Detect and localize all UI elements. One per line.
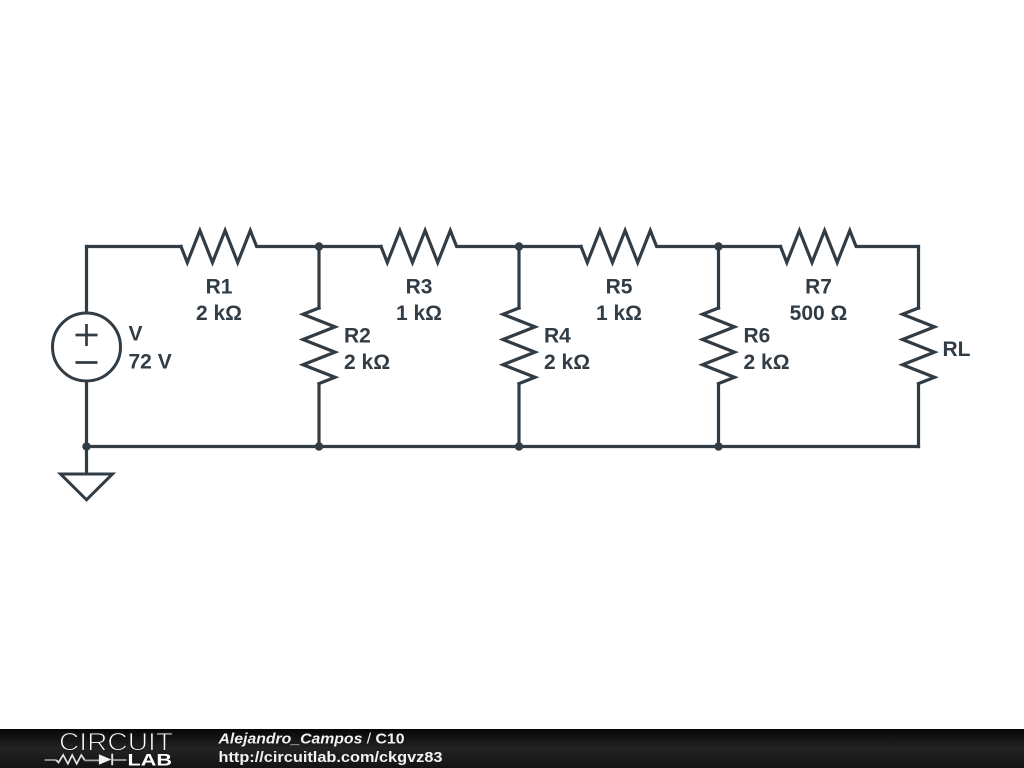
svg-text:R3: R3 [406, 276, 433, 299]
svg-text:2 kΩ: 2 kΩ [544, 351, 590, 374]
svg-text:72 V: 72 V [129, 351, 172, 374]
svg-text:Alejandro_Campos / C10: Alejandro_Campos / C10 [217, 731, 404, 748]
svg-text:R1: R1 [206, 276, 233, 299]
svg-text:2 kΩ: 2 kΩ [196, 302, 242, 325]
svg-text:V: V [129, 323, 143, 346]
svg-text:R4: R4 [544, 325, 571, 348]
svg-text:500 Ω: 500 Ω [790, 302, 848, 325]
svg-text:1 kΩ: 1 kΩ [396, 302, 442, 325]
svg-text:RL: RL [943, 338, 971, 361]
svg-text:R6: R6 [744, 325, 771, 348]
svg-text:1 kΩ: 1 kΩ [596, 302, 642, 325]
svg-text:R7: R7 [805, 276, 832, 299]
svg-text:LAB: LAB [128, 752, 173, 768]
svg-text:http://circuitlab.com/ckgvz83: http://circuitlab.com/ckgvz83 [219, 749, 443, 766]
svg-text:2 kΩ: 2 kΩ [744, 351, 790, 374]
svg-text:R5: R5 [606, 276, 633, 299]
svg-text:R2: R2 [344, 325, 371, 348]
svg-text:2 kΩ: 2 kΩ [344, 351, 390, 374]
